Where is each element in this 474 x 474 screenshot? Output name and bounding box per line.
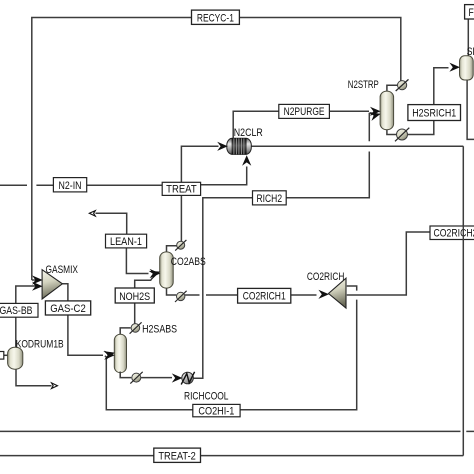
wire RECYC-1 into GASMIX xyxy=(32,279,36,281)
svg-text:SEP1: SEP1 xyxy=(467,46,474,58)
svg-text:GASMIX: GASMIX xyxy=(46,264,79,276)
svg-text:LEAN-1: LEAN-1 xyxy=(110,236,142,248)
svg-text:N2PURGE: N2PURGE xyxy=(284,106,325,118)
svg-text:RECYC-1: RECYC-1 xyxy=(197,12,234,24)
export arrow KODRUM1B bottoms xyxy=(52,383,58,389)
label box N2PURGE xyxy=(279,104,330,118)
label box TREAT xyxy=(162,182,200,195)
label box GAS-BB (clipped) xyxy=(0,303,38,317)
wire N2STRP bottom to reboiler xyxy=(387,129,397,135)
svg-text:KODRUM1B: KODRUM1B xyxy=(16,338,64,350)
drum separator right edge xyxy=(460,56,474,80)
splitter CO2RICH xyxy=(329,278,347,308)
wire TREAT riser CO2ABS to N2CLR xyxy=(181,146,218,242)
wire N2-IN through TREAT to N2CLR bottom xyxy=(201,167,247,185)
arrow into H2SABS (GAS-C2) xyxy=(104,351,115,360)
wire H2SRICH1 from reboiler to vessel xyxy=(408,68,449,135)
heater RICHCOOL xyxy=(181,372,194,385)
arrow into N2STRP (RICH2) tilted xyxy=(369,109,382,120)
condenser circle H2SABS xyxy=(130,322,142,333)
svg-text:H2SABS: H2SABS xyxy=(142,323,177,335)
svg-text:N2STRP: N2STRP xyxy=(348,79,379,91)
arrow into N2CLR bottom (N2-IN) xyxy=(242,155,251,166)
svg-text:RICH2: RICH2 xyxy=(257,193,283,205)
svg-text:NOH2S: NOH2S xyxy=(119,291,150,303)
wire H2SABS top to circle xyxy=(120,328,130,336)
wire N2-IN right of hop xyxy=(36,184,162,186)
label box CO2HI-1 xyxy=(193,404,240,417)
svg-text:N2-IN: N2-IN xyxy=(59,180,82,192)
source arrow LEAN-1 xyxy=(89,211,95,217)
label box RICH2 xyxy=(253,191,287,205)
svg-text:CO2RICH1: CO2RICH1 xyxy=(243,291,286,303)
wire KODRUM1B feed stub xyxy=(4,354,9,356)
label box H2SRICH1 xyxy=(408,105,461,121)
wire NOH2S riser H2SABS top to CO2ABS xyxy=(135,278,153,325)
reboiler circle N2STRP xyxy=(395,128,409,142)
label box CO2RICH2 (clipped) xyxy=(430,225,474,241)
arrow into CO2ABS (LEAN-1) xyxy=(150,269,161,278)
wire KODRUM1B bottoms xyxy=(16,368,52,386)
wire CO2ABS bottom to reboiler xyxy=(167,287,177,295)
drum KODRUM1B xyxy=(8,347,23,369)
arrow into separator (H2SRICH1) xyxy=(449,63,460,72)
svg-text:CO2RICH: CO2RICH xyxy=(307,271,345,283)
wire right-edge vertical down xyxy=(462,146,464,455)
wire N2CLR outlet long right xyxy=(251,145,463,147)
svg-text:N2CLR: N2CLR xyxy=(234,127,263,139)
label box feed stream (clipped at left edge) xyxy=(0,352,4,360)
wire GAS-BB riser xyxy=(16,286,36,347)
arrow into H2SABS (CO2HI-1) tilted xyxy=(103,348,116,360)
condenser circle N2STRP xyxy=(396,79,409,91)
wire N2-IN left segment xyxy=(0,184,27,186)
wire bottom line 2 treat-2 xyxy=(0,455,463,457)
mixer GASMIX xyxy=(42,270,62,299)
svg-text:FUEL: FUEL xyxy=(469,7,474,19)
wire RECYC-1 horizontal top xyxy=(32,18,401,281)
wire CO2ABS bottoms to CO2RICH splitter xyxy=(185,294,200,296)
reboiler circle CO2ABS xyxy=(175,291,187,302)
condenser circle CO2ABS xyxy=(175,240,186,251)
reboiler circle H2SABS xyxy=(120,372,143,384)
label box TREAT-2 xyxy=(154,448,201,462)
label box FUEL (clipped) xyxy=(465,5,474,19)
wire N2STRP top to condenser xyxy=(387,85,397,92)
label box N2-IN xyxy=(53,178,86,192)
arrow into GASMIX lower (GAS-BB) xyxy=(32,282,43,291)
wire vessel bottoms exit right xyxy=(467,79,474,139)
svg-text:H2SRICH1: H2SRICH1 xyxy=(412,107,456,119)
column CO2ABS xyxy=(160,252,174,288)
wire LEAN-1 xyxy=(96,213,127,234)
svg-text:TREAT-2: TREAT-2 xyxy=(158,450,196,462)
wire RICH2 from RICHCOOL to N2STRP xyxy=(193,152,369,379)
column N2STRP xyxy=(380,91,394,130)
arrow into RICHCOOL xyxy=(172,373,183,382)
wire bottom line 1 xyxy=(0,430,461,432)
wire N2PURGE from N2CLR top to N2STRP xyxy=(233,111,369,139)
arrow into CO2ABS (NOH2S) tilted xyxy=(149,267,162,279)
wire CO2ABS top to condenser xyxy=(167,246,178,253)
label box CO2RICH1 xyxy=(238,288,291,303)
svg-text:TREAT: TREAT xyxy=(166,184,197,196)
wire H2SABS bottoms to RICHCOOL xyxy=(120,371,131,378)
label box NOH2S xyxy=(115,288,154,303)
label box LEAN-1 xyxy=(106,234,147,248)
svg-text:RICHCOOL: RICHCOOL xyxy=(184,390,229,402)
svg-text:GAS-C2: GAS-C2 xyxy=(50,303,86,315)
wire GASMIX outlet to GAS-C2 to H2SABS xyxy=(62,284,103,355)
arrow into GASMIX upper (RECYC-1) xyxy=(32,275,43,284)
svg-text:CO2RICH2: CO2RICH2 xyxy=(434,228,474,240)
svg-text:GAS-BB: GAS-BB xyxy=(0,305,33,317)
wire splitter outlet to CO2RICH2 xyxy=(347,232,430,295)
heater N2CLR (striped drum) xyxy=(227,138,252,154)
arrow into N2CLR left (TREAT) xyxy=(217,142,228,151)
arrow into CO2RICH tip xyxy=(318,290,329,299)
svg-text:CO2ABS: CO2ABS xyxy=(171,256,206,268)
wire LEAN-1 lower to CO2ABS xyxy=(126,248,148,274)
arrow into N2STRP (N2PURGE) xyxy=(370,107,381,116)
svg-text:CO2HI-1: CO2HI-1 xyxy=(198,405,234,417)
column H2SABS xyxy=(114,334,126,373)
wire CO2HI-1 from splitter to H2SABS xyxy=(347,286,357,291)
label box RECYC-1 xyxy=(192,10,240,24)
label box GAS-C2 xyxy=(45,301,90,315)
wire vessel top to F box xyxy=(467,19,469,57)
